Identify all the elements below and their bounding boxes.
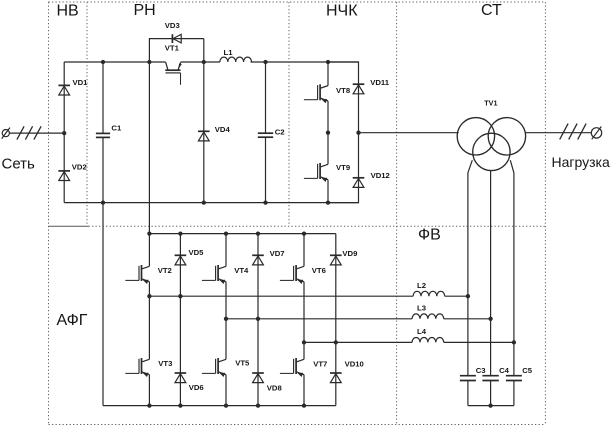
block border: outer top edge xyxy=(49,1,546,3)
transistor VT8 (IGBT) xyxy=(304,62,328,133)
node VT8 collector junction xyxy=(326,60,330,64)
svg-text:VD8: VD8 xyxy=(267,383,283,392)
svg-text:VT4: VT4 xyxy=(234,266,249,275)
node VD7 top xyxy=(256,231,260,235)
label block СТ xyxy=(481,2,502,19)
node VD4 bottom xyxy=(202,200,206,204)
diode VD6 xyxy=(175,373,187,383)
capacitor C2 xyxy=(258,133,273,137)
svg-text:C3: C3 xyxy=(476,366,486,375)
label VD11 xyxy=(370,78,390,87)
transistor VT9 (IGBT) xyxy=(304,133,328,203)
phase terminal Ø (input) xyxy=(2,128,10,139)
node bottom rail VD8 xyxy=(256,403,260,407)
node filter bottom mid xyxy=(488,403,492,407)
svg-text:VD2: VD2 xyxy=(72,163,87,172)
wire VD10 branch xyxy=(335,342,337,405)
svg-text:VT3: VT3 xyxy=(158,359,172,368)
wire output from TV1 xyxy=(526,132,592,134)
label L3 xyxy=(417,303,426,312)
svg-text:ФВ: ФВ xyxy=(418,227,441,244)
block border: НЧК/СТ + АФГ/ФВ divider xyxy=(396,2,398,425)
transformer TV1 xyxy=(457,118,525,171)
node input junction xyxy=(62,131,66,135)
svg-text:VD5: VD5 xyxy=(189,248,205,257)
svg-text:L3: L3 xyxy=(417,303,426,312)
svg-text:VT2: VT2 xyxy=(158,266,172,275)
label VT1 xyxy=(165,43,180,52)
block border: outer right edge xyxy=(544,2,546,425)
node bottom rail VT5 xyxy=(224,403,228,407)
inductor L3 xyxy=(412,314,444,319)
svg-text:VT8: VT8 xyxy=(336,86,351,95)
wire TV1 secondary drop 1 xyxy=(468,160,472,375)
transistor VT7 (IGBT) xyxy=(280,342,304,405)
inductor L4 xyxy=(412,338,444,343)
label VT6 xyxy=(312,266,326,275)
inductor L2 xyxy=(413,291,445,296)
label C3 xyxy=(476,366,486,375)
svg-text:TV1: TV1 xyxy=(484,98,497,107)
node VT1 emitter junction xyxy=(202,60,206,64)
label L1 xyxy=(224,48,234,57)
diode VD4 xyxy=(198,131,210,141)
svg-text:VT6: VT6 xyxy=(312,266,326,275)
hatch marks on output wire xyxy=(560,124,586,140)
label VD7 xyxy=(270,249,285,258)
wire L4 to drop3 xyxy=(444,341,514,343)
block border: horizontal divider above АФГ and ФВ (solid part) xyxy=(49,225,89,227)
wire VD11 branch corner xyxy=(328,62,359,133)
svg-text:VD10: VD10 xyxy=(345,359,364,368)
svg-text:L4: L4 xyxy=(417,327,427,336)
diode VD9 xyxy=(330,255,342,265)
wire C2 branch upper xyxy=(265,62,267,133)
label C4 xyxy=(499,366,510,375)
svg-text:L1: L1 xyxy=(224,48,234,57)
svg-text:VT1: VT1 xyxy=(165,43,180,52)
hatch marks on input wire xyxy=(17,126,41,139)
transistor VT2 (IGBT) xyxy=(125,234,149,297)
transistor VT3 (IGBT) xyxy=(125,296,149,405)
label VD1 xyxy=(73,78,89,87)
wire НВ left branch xyxy=(63,62,65,203)
label VT7 xyxy=(313,359,327,368)
label VT8 xyxy=(336,86,351,95)
svg-text:C2: C2 xyxy=(275,128,285,137)
svg-text:VD6: VD6 xyxy=(189,383,204,392)
svg-text:СТ: СТ xyxy=(481,2,502,19)
label VT4 xyxy=(234,266,249,275)
transistor VT5 (IGBT) xyxy=(202,319,226,406)
svg-text:VD1: VD1 xyxy=(73,78,89,87)
wire phase 3 rail xyxy=(304,341,412,343)
diode VD10 xyxy=(330,373,342,383)
svg-text:НЧК: НЧК xyxy=(326,3,358,20)
wire VD6 branch xyxy=(179,296,181,405)
wire filter bottom rail xyxy=(468,405,514,407)
wire VD9 branch xyxy=(335,234,337,343)
inductor L1 xyxy=(220,57,252,62)
wire VD5 branch xyxy=(179,234,181,297)
node L4 junction xyxy=(512,340,516,344)
capacitor C1 xyxy=(96,133,110,137)
svg-text:VD7: VD7 xyxy=(270,249,285,258)
block border: horizontal divider above АФГ and ФВ (dashed part) xyxy=(89,225,546,227)
label VT2 xyxy=(158,266,172,275)
wire top rail (VT1 to L1) xyxy=(181,61,220,63)
label VD4 xyxy=(215,125,231,134)
svg-text:Нагрузка: Нагрузка xyxy=(552,154,610,170)
block border: outer left edge xyxy=(48,2,50,425)
block border: РН/НЧК divider xyxy=(288,2,290,225)
node VD5 top xyxy=(178,231,182,235)
label VD3 xyxy=(165,21,180,30)
label C1 xyxy=(111,123,122,132)
label Сеть xyxy=(2,156,36,173)
diode VD8 xyxy=(252,373,264,383)
wire phase 1 rail xyxy=(149,295,413,297)
svg-text:C4: C4 xyxy=(499,366,510,375)
wire L2 to drop1 xyxy=(445,295,468,297)
svg-text:L2: L2 xyxy=(417,281,426,290)
wire VD8 branch xyxy=(257,319,259,406)
node C2 top xyxy=(263,60,267,64)
wire РН left vertical (DC link to АФГ) xyxy=(148,62,150,234)
node VT9 emitter xyxy=(326,200,330,204)
wire VD12 branch corner xyxy=(328,133,359,203)
node C2 bottom xyxy=(263,200,267,204)
block border: outer bottom edge xyxy=(49,424,546,426)
svg-text:VD9: VD9 xyxy=(342,249,357,258)
diode VD5 xyxy=(175,255,187,265)
wire C1 branch upper xyxy=(102,62,104,133)
block border: НВ/РН divider xyxy=(86,2,88,224)
wire C4 lower xyxy=(490,381,492,406)
wire top rail (НВ corner to VT1) xyxy=(64,61,165,63)
wire top rail (L1 to VD11 corner) xyxy=(251,61,359,63)
label VD9 xyxy=(342,249,357,258)
node phase2 at VD7 xyxy=(256,317,260,321)
transistor VT4 (IGBT) xyxy=(202,234,226,319)
wire АФГ bottom rail xyxy=(103,405,336,407)
label VT3 xyxy=(158,359,172,368)
node C1 bottom xyxy=(101,200,105,204)
wire phase 2 rail xyxy=(226,318,412,320)
svg-text:РН: РН xyxy=(134,2,156,19)
svg-text:C1: C1 xyxy=(111,123,122,132)
svg-text:НВ: НВ xyxy=(57,3,79,20)
wire C3 lower xyxy=(467,381,469,406)
node L2 junction xyxy=(466,294,470,298)
wire L3 to drop2 xyxy=(444,318,491,320)
node L3 junction xyxy=(488,317,492,321)
label block РН xyxy=(134,2,156,19)
node VT6 collector xyxy=(302,231,306,235)
svg-text:АФГ: АФГ xyxy=(57,312,88,329)
wire АФГ top rail xyxy=(149,233,335,235)
node phase3 at VD9 xyxy=(334,340,338,344)
svg-text:VT7: VT7 xyxy=(313,359,327,368)
wire VD3 loop left+top xyxy=(149,39,203,62)
wire bottom rail xyxy=(64,202,358,204)
label block НЧК xyxy=(326,3,358,20)
label VD5 xyxy=(189,248,205,257)
node phase3 at VT6 xyxy=(302,340,306,344)
svg-text:VD4: VD4 xyxy=(215,125,231,134)
label VD8 xyxy=(267,383,283,392)
label VD10 xyxy=(345,359,364,368)
label C5 xyxy=(522,366,533,375)
label C2 xyxy=(275,128,285,137)
transistor VT6 (IGBT) xyxy=(280,234,304,343)
wire VD4 branch xyxy=(203,62,205,203)
capacitor C3 xyxy=(460,376,476,381)
label VT5 xyxy=(235,358,250,367)
diode VD1 xyxy=(58,85,70,95)
wire TV1 secondary drop 3 xyxy=(510,160,514,375)
wire C5 lower xyxy=(513,381,515,406)
label L4 xyxy=(417,327,427,336)
capacitor C5 xyxy=(506,376,522,381)
wire НЧК mid rail to transformer xyxy=(359,132,459,134)
node VT1 collector junction xyxy=(147,60,151,64)
node bottom rail VD6 xyxy=(178,403,182,407)
node mid rail at VT8 xyxy=(326,131,330,135)
label VD6 xyxy=(189,383,204,392)
diode VD2 xyxy=(58,171,70,181)
node phase1 at VD5 xyxy=(178,294,182,298)
svg-text:VD12: VD12 xyxy=(371,171,390,180)
svg-text:VT9: VT9 xyxy=(336,163,350,172)
label VD12 xyxy=(371,171,390,180)
label Нагрузка xyxy=(552,154,610,170)
node phase2 at VT4 xyxy=(224,317,228,321)
diode VD3 xyxy=(172,34,181,43)
label TV1 xyxy=(484,98,497,107)
wire C2 branch lower xyxy=(265,137,267,202)
svg-text:VD11: VD11 xyxy=(370,78,390,87)
label block АФГ xyxy=(57,312,88,329)
node phase1 at VT2 xyxy=(147,294,151,298)
node АФГ feed junction xyxy=(147,231,151,235)
diode VD12 xyxy=(353,178,365,188)
svg-text:C5: C5 xyxy=(522,366,533,375)
node bottom rail VT7 xyxy=(302,403,306,407)
wire VD7 branch xyxy=(257,234,259,319)
node mid rail at VD11 xyxy=(356,131,360,135)
node C1 top xyxy=(101,60,105,64)
wire TV1 secondary drop 2 xyxy=(490,171,492,376)
svg-text:VD3: VD3 xyxy=(165,21,180,30)
svg-text:Сеть: Сеть xyxy=(2,156,36,173)
label L2 xyxy=(417,281,426,290)
label block ФВ xyxy=(418,227,441,244)
label VT9 xyxy=(336,163,350,172)
label block НВ xyxy=(57,3,79,20)
capacitor C4 xyxy=(482,376,498,381)
transistor VT1 (IGBT, horizontal) xyxy=(165,62,182,85)
wire input to node A xyxy=(9,132,64,134)
node VT4 collector xyxy=(224,231,228,235)
diode VD7 xyxy=(252,255,264,265)
wire C1 branch lower / АФГ left rail xyxy=(102,137,104,405)
diode VD11 xyxy=(353,84,365,94)
label VD2 xyxy=(72,163,87,172)
phase terminal Ø (output) xyxy=(591,127,601,140)
node bottom rail VT3 xyxy=(147,403,151,407)
svg-text:VT5: VT5 xyxy=(235,358,250,367)
